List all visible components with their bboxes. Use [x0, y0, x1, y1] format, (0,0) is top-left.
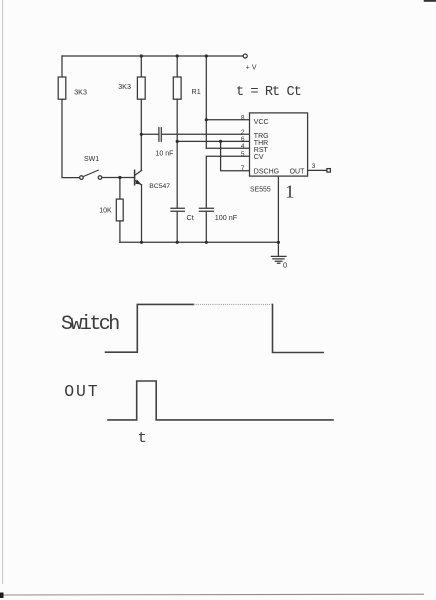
- svg-text:OUT: OUT: [64, 382, 99, 401]
- wire Ct bottom: [176, 211, 178, 242]
- wire R1 branch top: [176, 56, 178, 77]
- wire Switch waveform solid: [106, 304, 194, 352]
- svg-text:OUT: OUT: [290, 169, 306, 176]
- scan artifact top-right bar: [424, 0, 436, 2]
- wire pin8 VCC: [206, 119, 249, 121]
- svg-text:10K: 10K: [99, 207, 112, 214]
- node dot VCC pin8: [205, 118, 208, 121]
- wire pin6 THR: [177, 140, 249, 142]
- resistor 3K3 (right): [137, 77, 145, 99]
- svg-text:1: 1: [285, 181, 294, 201]
- wire left branch vertical to resistor: [61, 56, 63, 77]
- ground bars: [271, 256, 286, 263]
- capacitor 10nF: [159, 128, 161, 142]
- svg-text:VCC: VCC: [254, 119, 269, 126]
- svg-text:t = Rt Ct: t = Rt Ct: [236, 85, 301, 100]
- scan artifact bottom horizontal line: [0, 593, 424, 596]
- wire 10nF left: [141, 133, 158, 135]
- switch SW1 right contact: [98, 176, 102, 180]
- svg-text:Ct: Ct: [187, 213, 194, 222]
- wire switch to base junction: [102, 177, 134, 179]
- wire collector vertical: [140, 99, 142, 170]
- capacitor 100nF: [199, 208, 213, 211]
- wire pin2 TRG: [162, 133, 250, 135]
- wire emitter vertical: [141, 185, 143, 243]
- node dot rail 100nF: [205, 241, 208, 244]
- capacitor Ct: [171, 208, 184, 211]
- svg-text:0: 0: [283, 260, 287, 269]
- wire R1 to THR node and down to Ct: [176, 99, 178, 208]
- node dot base junction: [118, 176, 121, 179]
- node dot rail ground: [277, 241, 280, 244]
- svg-text:R1: R1: [192, 87, 201, 96]
- node dot 10nF collector: [140, 133, 143, 136]
- terminal OUT square: [327, 169, 331, 173]
- transistor Q1 collector diagonal: [135, 170, 142, 175]
- svg-text:SW1: SW1: [84, 156, 99, 163]
- scan artifact left vertical line: [2, 0, 4, 584]
- svg-text:3K3: 3K3: [118, 82, 131, 91]
- svg-text:TRG: TRG: [254, 133, 269, 140]
- wire OUT waveform: [108, 381, 333, 420]
- svg-text:5: 5: [241, 151, 245, 158]
- wire 100nF bottom: [205, 211, 207, 242]
- node dot top rail / 3K3 right: [140, 54, 143, 57]
- wire Switch waveform fall and low: [273, 304, 324, 352]
- node dot top rail / VCC line: [205, 54, 208, 57]
- node dot rail emitter: [140, 241, 143, 244]
- svg-text:4: 4: [241, 143, 245, 150]
- wire bottom ground rail: [120, 241, 279, 243]
- svg-text:Switch: Switch: [61, 313, 119, 336]
- transistor Q1 emitter diagonal: [135, 180, 142, 185]
- switch SW1 left contact: [80, 176, 84, 180]
- svg-text:8: 8: [241, 114, 245, 121]
- svg-text:3: 3: [312, 163, 316, 170]
- svg-text:10 nF: 10 nF: [156, 150, 174, 157]
- transistor Q1 base bar: [134, 170, 136, 185]
- svg-text:SE555: SE555: [250, 186, 271, 193]
- wire left branch resistor to switch: [62, 99, 80, 177]
- wire top +V rail: [62, 55, 243, 57]
- scan artifact bottom-left blob: [0, 593, 4, 599]
- resistor 3K3 (left): [58, 77, 66, 99]
- svg-text:100 nF: 100 nF: [215, 213, 238, 222]
- svg-text:+ V: + V: [246, 65, 257, 72]
- svg-text:CV: CV: [254, 154, 264, 161]
- svg-text:t: t: [138, 430, 147, 447]
- svg-text:7: 7: [241, 165, 245, 172]
- resistor R1: [173, 77, 181, 99]
- wire DSCHG to THR link: [221, 141, 250, 170]
- svg-text:BC547: BC547: [149, 183, 170, 190]
- wire 3K3 right branch top: [140, 56, 142, 77]
- svg-text:RST: RST: [254, 147, 269, 154]
- svg-text:DSCHG: DSCHG: [254, 169, 279, 176]
- wire pin5 CV to 100nF: [206, 156, 249, 208]
- wire Switch waveform dotted top: [194, 303, 273, 305]
- node dot THR DSCHG: [219, 140, 222, 143]
- node dot THR R1: [176, 140, 179, 143]
- terminal +V circle: [243, 54, 247, 58]
- wire VCC/RST vertical: [205, 56, 207, 148]
- resistor 10K: [116, 199, 123, 221]
- wire IC bottom to ground: [277, 176, 279, 256]
- node dot top rail / R1: [176, 54, 179, 57]
- wire 10K bottom: [119, 221, 121, 242]
- op-amp U1 IC SE555 box: [250, 113, 308, 176]
- wire pin4 RST: [206, 147, 249, 149]
- wire 10K top: [119, 178, 121, 200]
- svg-text:3K3: 3K3: [74, 88, 87, 97]
- switch SW1 blade: [83, 170, 98, 176]
- node dot rail Ct: [176, 241, 179, 244]
- wire pin3 OUT: [308, 169, 327, 171]
- transistor Q1 emitter arrow: [135, 179, 141, 184]
- svg-text:2: 2: [241, 129, 245, 136]
